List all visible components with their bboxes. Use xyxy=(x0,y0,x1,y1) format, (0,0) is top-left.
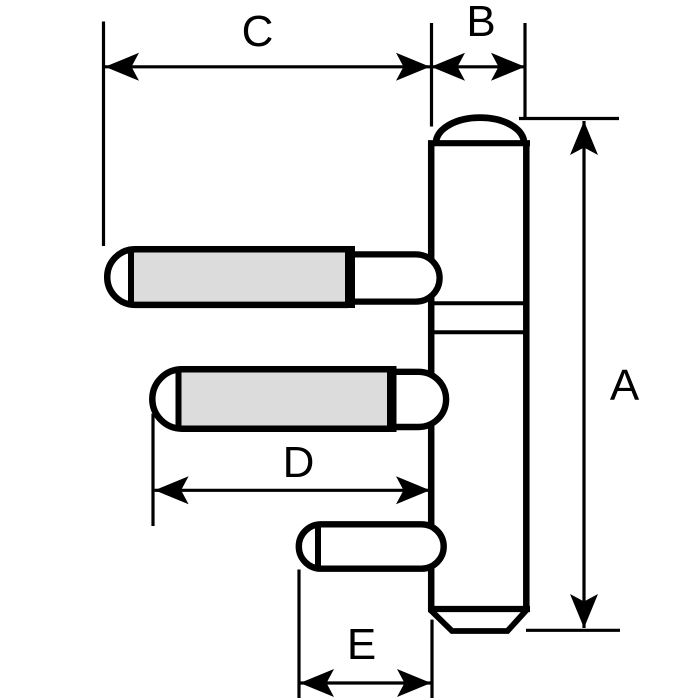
dimension E left arrowhead xyxy=(300,669,334,697)
pin 1 (top pin) xyxy=(107,246,439,308)
pin 1 sleeve end bar xyxy=(345,246,355,308)
pin 2 (middle pin) xyxy=(152,366,446,432)
pin 1 tip xyxy=(355,254,440,301)
pin 3 cap separator xyxy=(315,524,321,568)
dimension A reference line (top) xyxy=(519,117,619,120)
barrel top line xyxy=(428,140,530,146)
dimension B right arrowhead xyxy=(491,53,525,81)
dimension D left arrowhead xyxy=(155,476,189,504)
dimension C left arrowhead xyxy=(105,53,139,81)
dimension E extension line (left) xyxy=(297,570,300,699)
barrel left edge xyxy=(428,143,435,609)
barrel bottom chamfer xyxy=(430,610,527,632)
svg-text:A: A xyxy=(610,361,640,410)
dimension C line xyxy=(105,65,430,68)
svg-text:B: B xyxy=(466,0,495,46)
dimension B extension line (right) xyxy=(523,23,526,120)
dimension A down arrowhead xyxy=(570,594,598,628)
dimension D extension line (left) xyxy=(151,414,154,526)
barrel bottom line xyxy=(428,606,530,612)
dimension E right arrowhead xyxy=(397,669,431,697)
svg-text:C: C xyxy=(242,7,274,56)
svg-text:D: D xyxy=(283,438,315,487)
knuckle joint line upper xyxy=(431,301,526,305)
knuckle joint line lower xyxy=(431,330,526,334)
pin 1 cap separator xyxy=(128,247,134,308)
pin 3 (bottom pin) xyxy=(299,524,444,568)
barrel top dome xyxy=(436,118,524,143)
dimension D line xyxy=(155,489,430,492)
dimension B extension line (left) xyxy=(430,23,433,127)
dimension B line xyxy=(431,65,525,68)
dimension D right arrowhead xyxy=(396,476,430,504)
dimension B left arrowhead xyxy=(431,53,465,81)
pin 2 sleeve end bar xyxy=(387,366,397,432)
dimension C extension line (left) xyxy=(102,22,105,247)
pin 2 tip xyxy=(397,372,447,427)
dimension C right arrowhead xyxy=(396,53,430,81)
dimension E line xyxy=(300,681,431,684)
pin 2 cap separator xyxy=(176,367,182,431)
hinge barrel body xyxy=(428,118,530,631)
dimension A line xyxy=(582,121,585,628)
svg-text:E: E xyxy=(347,620,376,669)
dimension A reference line (bottom) xyxy=(526,629,620,632)
dimension E extension line (right) xyxy=(430,620,433,698)
barrel right edge xyxy=(523,143,530,609)
dimension A up arrowhead xyxy=(570,121,598,155)
